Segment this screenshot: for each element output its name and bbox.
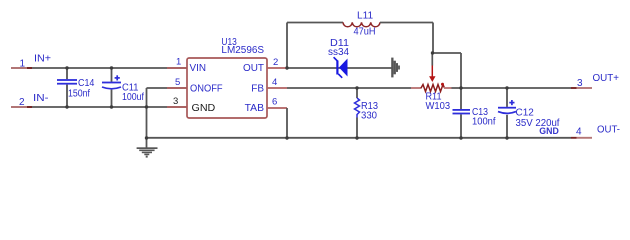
wire FB to OUT+ <box>451 87 571 89</box>
wire ONOFF horizontal <box>147 87 188 89</box>
pin 6 stub TAB <box>267 107 287 109</box>
svg-text:ss34: ss34 <box>328 47 349 58</box>
wire TAB down to ground rail <box>286 108 288 138</box>
wire output node vertical <box>432 23 434 54</box>
svg-text:330: 330 <box>361 111 377 122</box>
wire ONOFF to ground vertical <box>146 88 148 148</box>
capacitor C11 (polarized) <box>102 68 121 107</box>
wire top rail left <box>287 22 343 24</box>
svg-text:4: 4 <box>576 127 582 138</box>
svg-text:C14: C14 <box>78 78 95 89</box>
diode D11 (schottky) <box>334 57 348 78</box>
port stub 4 (OUT-) <box>571 137 577 139</box>
svg-text:GND: GND <box>539 126 559 137</box>
port stub 1 (IN+) <box>11 67 27 69</box>
resistor R13 <box>355 88 360 138</box>
svg-text:W103: W103 <box>426 101 451 112</box>
svg-text:IN-: IN- <box>33 93 49 104</box>
pin 1 stub VIN <box>167 67 187 69</box>
pin 2 stub OUT <box>267 67 287 69</box>
svg-text:VIN: VIN <box>190 63 207 74</box>
wire FB rail <box>287 87 411 89</box>
svg-text:5: 5 <box>175 77 180 88</box>
svg-text:FB: FB <box>251 84 264 95</box>
svg-text:TAB: TAB <box>245 103 265 114</box>
svg-text:LM2596S: LM2596S <box>221 45 264 56</box>
wire top rail right <box>380 22 433 24</box>
svg-text:100uf: 100uf <box>122 92 144 103</box>
svg-text:GND: GND <box>192 103 216 114</box>
capacitor C13 <box>453 88 471 138</box>
svg-text:1: 1 <box>176 57 181 68</box>
capacitor C14 <box>57 68 77 107</box>
svg-text:C12: C12 <box>516 108 535 119</box>
svg-text:ONOFF: ONOFF <box>190 84 223 95</box>
svg-text:4: 4 <box>272 77 277 88</box>
svg-text:1: 1 <box>20 59 26 70</box>
svg-text:100nf: 100nf <box>472 117 496 128</box>
svg-text:3: 3 <box>577 78 583 89</box>
pin 4 stub FB <box>267 87 287 89</box>
pin 5 stub ONOFF <box>167 87 187 89</box>
pin 3 stub GND <box>167 106 187 108</box>
resistor R11 (trim pot) <box>411 53 452 92</box>
op IC U13 box <box>187 58 267 118</box>
svg-text:47uH: 47uH <box>354 26 376 37</box>
wire GND bottom rail <box>147 137 572 139</box>
port stub 3 (OUT+) <box>571 87 577 89</box>
svg-text:OUT: OUT <box>243 63 264 74</box>
wire diode row <box>287 67 392 69</box>
svg-text:OUT+: OUT+ <box>593 73 620 84</box>
ground symbol (sideways, diode anode) <box>391 58 400 78</box>
wire switch node vertical <box>286 23 288 69</box>
svg-text:150nf: 150nf <box>68 89 90 100</box>
capacitor C12 (polarized) <box>498 88 516 138</box>
wire IN- rail <box>11 106 187 108</box>
svg-text:IN+: IN+ <box>34 54 51 65</box>
wire IN+ rail <box>11 67 187 69</box>
svg-text:6: 6 <box>272 97 277 108</box>
port stub 2 (IN-) <box>11 106 27 108</box>
wire wiper loop vertical <box>460 53 462 88</box>
svg-text:2: 2 <box>19 97 25 108</box>
svg-text:L11: L11 <box>357 11 374 22</box>
ground symbol <box>137 147 158 157</box>
svg-text:3: 3 <box>173 96 178 107</box>
svg-text:2: 2 <box>273 57 278 68</box>
wire wiper loop horizontal <box>433 52 461 54</box>
inductor L11 <box>343 22 380 26</box>
svg-text:OUT-: OUT- <box>597 124 620 135</box>
